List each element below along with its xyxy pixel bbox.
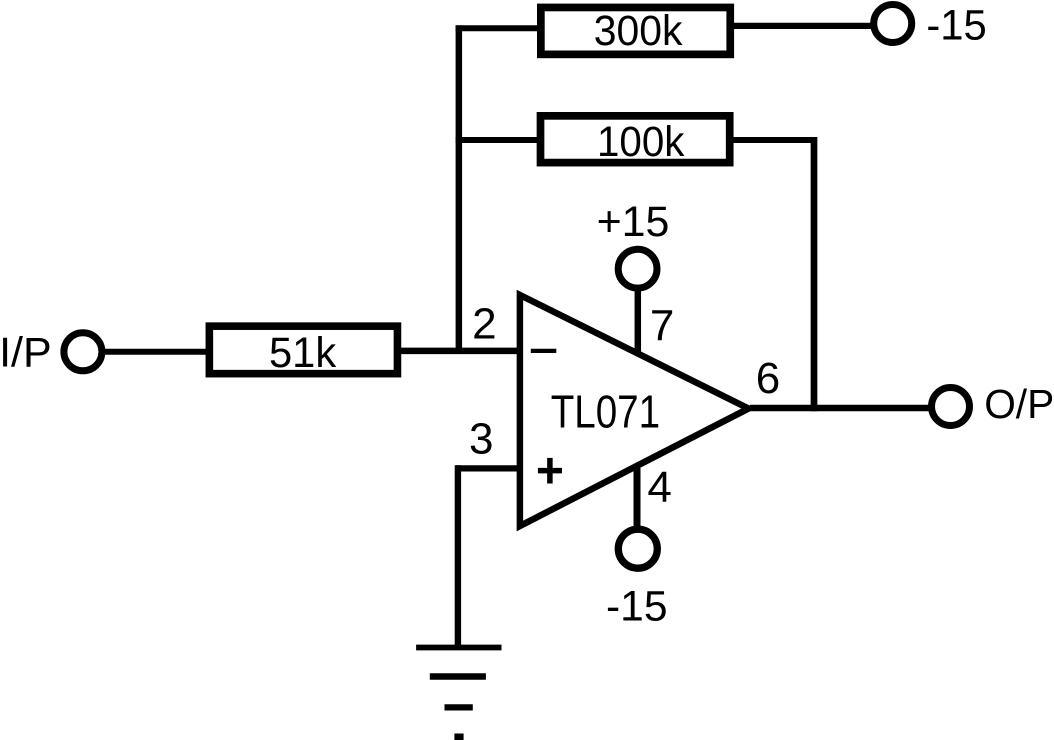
svg-text:51k: 51k	[269, 329, 337, 377]
svg-text:TL071: TL071	[551, 386, 660, 438]
svg-text:O/P: O/P	[984, 381, 1054, 427]
svg-text:+15: +15	[597, 198, 670, 246]
svg-text:2: 2	[472, 300, 496, 349]
svg-text:4: 4	[647, 463, 671, 512]
svg-text:300k: 300k	[594, 7, 683, 55]
svg-text:100k: 100k	[597, 118, 685, 166]
svg-text:-15: -15	[606, 583, 668, 631]
svg-text:6: 6	[756, 354, 780, 403]
svg-text:3: 3	[469, 414, 493, 463]
svg-text:I/P: I/P	[0, 328, 52, 375]
svg-text:-15: -15	[926, 2, 986, 50]
svg-text:7: 7	[650, 301, 674, 350]
